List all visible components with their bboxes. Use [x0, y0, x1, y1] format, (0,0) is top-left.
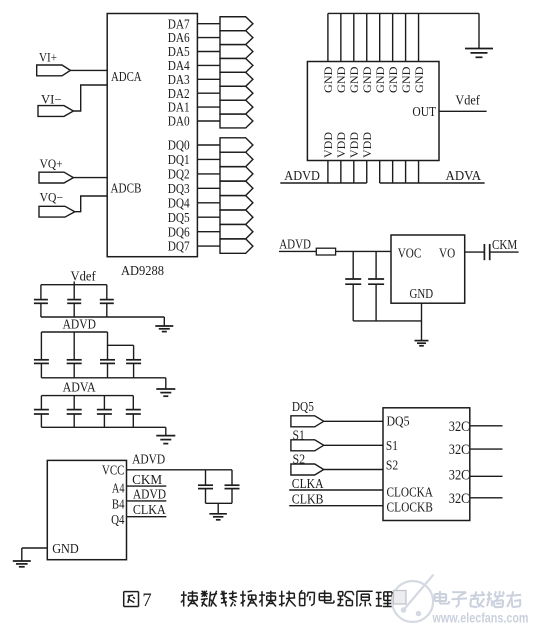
U5 pin label 32C #2 — [449, 442, 470, 458]
capacitor C6 — [100, 345, 115, 378]
svg-text:S2: S2 — [386, 458, 398, 473]
U4 pin label A4 — [112, 482, 125, 497]
svg-text:B4: B4 — [112, 498, 125, 513]
svg-text:DQ3: DQ3 — [168, 182, 190, 197]
net label ADVA — [446, 169, 482, 184]
wire bank2 bottom bus — [41, 377, 165, 379]
svg-text:DQ5: DQ5 — [168, 211, 190, 226]
svg-text:Q4: Q4 — [111, 513, 124, 528]
svg-text:Vdef: Vdef — [455, 92, 480, 107]
U5 pin label 32C #4 — [449, 491, 470, 507]
wire DA4 — [197, 64, 220, 66]
capacitor C9 — [368, 251, 384, 321]
IC U3 body — [391, 235, 465, 303]
wire ADVA bus — [380, 182, 485, 184]
wire S1 — [324, 444, 383, 446]
U1 pin label DQ1 — [168, 153, 190, 168]
svg-text:Vdef: Vdef — [71, 269, 97, 284]
U3 pin label GND — [410, 287, 434, 302]
svg-text:ADVD: ADVD — [284, 169, 320, 184]
watermark char dian — [435, 591, 450, 604]
wire DA7 — [197, 23, 220, 25]
connector DA5 — [220, 45, 253, 59]
U2 GND pin 3 wire — [353, 13, 355, 61]
capacitor C7 — [126, 345, 141, 378]
svg-text:S2: S2 — [293, 452, 306, 467]
svg-text:ADVD: ADVD — [132, 452, 165, 467]
U1 pin label DA3 — [168, 73, 190, 88]
connector VI- — [38, 106, 73, 117]
svg-text:DA1: DA1 — [168, 101, 190, 116]
svg-text:DQ0: DQ0 — [168, 139, 190, 154]
U2 pin 8 wire — [418, 161, 420, 184]
svg-text:GND: GND — [373, 66, 387, 93]
svg-text:ADVA: ADVA — [63, 380, 97, 395]
U2 VDD pin 1 wire — [327, 161, 329, 184]
U2 VDD pin 4 wire — [366, 161, 368, 184]
connector S1 — [291, 440, 324, 451]
svg-text:GND: GND — [52, 542, 79, 557]
wire VCC to ADVD — [127, 469, 233, 471]
U2 pin name VDD 1 — [321, 132, 335, 158]
wire VQ- to ADCB — [75, 196, 107, 212]
watermark logo circle — [392, 581, 433, 622]
U1 pin label DQ7 — [168, 240, 190, 255]
op-amp U1 AD9288 body — [107, 14, 197, 257]
svg-text:DQ2: DQ2 — [168, 168, 190, 183]
wire CLKB — [289, 505, 383, 507]
wire DQ5 — [197, 216, 220, 218]
U2 pin name GND 7 — [399, 66, 413, 93]
net label ADVD — [284, 169, 320, 184]
wire OUT — [439, 110, 487, 112]
connector DA6 — [220, 31, 253, 45]
capacitor C3 — [100, 285, 114, 317]
IC U5 body — [383, 408, 470, 521]
U2 pin name VDD 3 — [347, 132, 361, 158]
svg-text:CLOCKB: CLOCKB — [387, 500, 433, 515]
svg-text:ADVD: ADVD — [133, 486, 166, 501]
U2 pin name VDD 4 — [360, 132, 374, 158]
connector DQ6 — [220, 224, 253, 238]
svg-text:DA7: DA7 — [168, 17, 190, 32]
svg-text:CLKB: CLKB — [292, 491, 324, 506]
connector DA3 — [220, 72, 253, 86]
U2 pin name GND 5 — [373, 66, 387, 93]
svg-text:DA4: DA4 — [168, 59, 190, 74]
wire DQ7 — [197, 245, 220, 247]
U1 pin label DA4 — [168, 59, 190, 74]
wire CLKA — [289, 489, 383, 491]
net label ADVD — [132, 452, 165, 467]
U2 GND pin 1 wire — [327, 13, 329, 61]
svg-text:CKM: CKM — [132, 472, 162, 487]
wire ADVD bus — [280, 182, 366, 184]
U1 part number AD9288 — [121, 264, 164, 279]
wire C10 to CKM — [490, 251, 519, 253]
wire bank2 step — [108, 332, 134, 345]
svg-text:VDD: VDD — [360, 132, 374, 158]
wire bank3 top bus — [41, 395, 133, 397]
input label CLKA — [292, 476, 324, 491]
svg-text:DA5: DA5 — [168, 45, 190, 60]
caption char lu — [338, 592, 354, 606]
wire A4 CKM — [127, 485, 167, 487]
net label CKM — [132, 472, 162, 487]
U2 GND pin 8 wire — [418, 13, 420, 61]
svg-text:GND: GND — [347, 66, 361, 93]
ground G3 — [156, 378, 175, 396]
watermark tofu box — [394, 591, 407, 605]
U5 pin label CLOCKA — [387, 485, 434, 500]
capacitor C10 — [484, 244, 489, 260]
wire U3 GND pin — [421, 303, 423, 340]
svg-text:DA2: DA2 — [168, 87, 190, 102]
wire DA1 — [197, 106, 220, 108]
connector DQ3 — [220, 181, 253, 195]
svg-text:DQ7: DQ7 — [168, 240, 190, 255]
ground G2 — [155, 317, 173, 332]
connector DQ5 — [220, 210, 253, 224]
wire DQ3 — [197, 187, 220, 189]
caption char de — [300, 590, 315, 605]
svg-text:S1: S1 — [293, 429, 305, 444]
net label ADVD — [133, 486, 166, 501]
net label CLKA — [133, 502, 166, 517]
capacitor C16 — [225, 470, 240, 504]
watermark char you — [506, 591, 521, 607]
watermark char fa — [470, 591, 485, 607]
svg-text:A4: A4 — [112, 482, 125, 497]
net label CKM — [492, 237, 517, 252]
input label VQ+ — [40, 157, 63, 171]
capacitor C15 — [198, 470, 213, 504]
svg-text:VDD: VDD — [334, 132, 348, 158]
U2 pin 7 wire — [405, 161, 407, 184]
U5 pin label CLOCKB — [387, 500, 433, 515]
svg-text:DQ5: DQ5 — [292, 400, 314, 415]
capacitor C13 — [97, 396, 112, 428]
ground G6 — [209, 503, 227, 520]
svg-text:DA6: DA6 — [168, 31, 190, 46]
wire DA5 — [197, 51, 220, 53]
svg-text:CLOCKA: CLOCKA — [387, 485, 434, 500]
U2 pin name GND 8 — [412, 66, 426, 93]
caption char huan — [240, 591, 257, 607]
svg-text:32C: 32C — [449, 442, 470, 458]
U1 pin label DA5 — [168, 45, 190, 60]
svg-text:GND: GND — [412, 66, 426, 93]
svg-text:DQ6: DQ6 — [168, 225, 190, 240]
U1 label ADCA — [111, 70, 142, 85]
wire cap bottom bus — [206, 502, 233, 504]
U1 pin label DA2 — [168, 87, 190, 102]
input label VI- — [41, 92, 62, 106]
wire VO out — [465, 251, 484, 253]
wire Q4 CLKA — [127, 516, 167, 518]
svg-text:GND: GND — [321, 66, 335, 93]
input label VI+ — [39, 50, 57, 64]
svg-text:AD9288: AD9288 — [121, 264, 164, 279]
U4 pin label VCC — [102, 463, 125, 478]
U2 pin name GND 3 — [347, 66, 361, 93]
wire VQ+ to ADCB — [73, 177, 107, 179]
U1 label ADCB — [111, 182, 142, 197]
wire GND pin — [22, 547, 48, 549]
U5 pin label DQ5 — [387, 414, 410, 429]
svg-text:GND: GND — [334, 66, 348, 93]
U5 pin label S2 — [386, 458, 398, 473]
wire DQ4 — [197, 202, 220, 204]
svg-text:7: 7 — [142, 591, 151, 611]
connector DA7 — [220, 17, 253, 31]
U2 GND pin 7 wire — [405, 13, 407, 61]
U5 pin label 32C #3 — [449, 468, 470, 484]
U1 pin label DA0 — [168, 115, 190, 130]
U1 pin label DQ5 — [168, 211, 190, 226]
wire DQ1 — [197, 158, 220, 160]
svg-text:GND: GND — [360, 66, 374, 93]
U2 VDD pin 3 wire — [353, 161, 355, 184]
ground G7 — [13, 548, 31, 567]
U2 pin label OUT — [412, 105, 436, 120]
U2 pin name GND 6 — [386, 66, 400, 93]
svg-text:GND: GND — [399, 66, 413, 93]
connector DA2 — [220, 86, 253, 100]
wire to ground G1 — [478, 13, 480, 48]
svg-text:www.elecfans.com: www.elecfans.com — [432, 611, 529, 626]
caption char kuai — [279, 591, 296, 607]
wire DA6 — [197, 37, 220, 39]
U2 GND pin 5 wire — [379, 13, 381, 61]
svg-text:VI−: VI− — [41, 92, 62, 106]
wire 32C #3 — [470, 475, 503, 477]
IC U2 body — [307, 62, 439, 161]
wire bank1 bottom bus — [41, 316, 164, 318]
svg-text:VQ−: VQ− — [40, 191, 63, 205]
connector VI+ — [37, 65, 71, 76]
svg-text:CLKA: CLKA — [133, 502, 166, 517]
input label S2 — [293, 452, 306, 467]
capacitor C1 — [34, 285, 48, 317]
svg-text:S1: S1 — [386, 439, 398, 454]
capacitor C8 — [345, 251, 361, 321]
svg-text:DA0: DA0 — [168, 115, 190, 130]
svg-text:GND: GND — [386, 66, 400, 93]
svg-text:OUT: OUT — [412, 105, 436, 120]
capacitor C5 — [67, 332, 82, 378]
connector VQ+ — [39, 172, 73, 183]
U1 pin label DQ3 — [168, 182, 190, 197]
svg-text:CKM: CKM — [492, 237, 517, 252]
input label VQ- — [40, 191, 63, 205]
input label S1 — [293, 429, 305, 444]
wire VI+ to ADCA — [70, 69, 107, 71]
svg-text:ADVA: ADVA — [446, 169, 482, 184]
svg-text:DQ1: DQ1 — [168, 153, 190, 168]
svg-text:GND: GND — [410, 287, 434, 302]
wire VI- to ADCA — [73, 85, 107, 111]
capacitor C4 — [34, 332, 49, 378]
wire 32C #4 — [470, 497, 503, 499]
watermark char zi — [451, 592, 467, 607]
connector DQ7 — [220, 239, 253, 253]
wire 32C #1 — [470, 425, 503, 427]
net label Vdef — [71, 269, 97, 284]
svg-text:ADVD: ADVD — [279, 236, 311, 251]
U1 pin label DQ2 — [168, 168, 190, 183]
caption char zhuan — [220, 591, 237, 607]
svg-text:VQ+: VQ+ — [40, 157, 63, 171]
svg-text:ADCB: ADCB — [111, 182, 142, 197]
ground G1 — [465, 48, 493, 57]
svg-text:CLKA: CLKA — [292, 476, 324, 491]
svg-text:VI+: VI+ — [39, 50, 57, 64]
caption char yuan — [357, 591, 373, 606]
connector DA4 — [220, 58, 253, 72]
IC U4 body — [47, 460, 126, 559]
wire bank3 bottom bus — [41, 426, 165, 428]
net label ADVD — [279, 236, 311, 251]
net label ADVA — [63, 380, 97, 395]
capacitor C11 — [34, 396, 49, 428]
U4 pin label Q4 — [111, 513, 124, 528]
U2 VDD pin 2 wire — [340, 161, 342, 184]
svg-text:VOC: VOC — [398, 247, 422, 262]
wire bank1 top bus — [41, 284, 107, 286]
input label CLKB — [292, 491, 324, 506]
connector DQ0 — [220, 138, 253, 152]
wire cap bottoms — [353, 320, 421, 322]
input label DQ5 — [292, 400, 314, 415]
U2 pin name GND 4 — [360, 66, 374, 93]
U2 pin name VDD 2 — [334, 132, 348, 158]
net label Vdef — [455, 92, 480, 107]
svg-text:32C: 32C — [449, 491, 470, 507]
U3 pin label VOC — [398, 247, 422, 262]
connector VQ- — [39, 206, 75, 217]
wire Vdef stub — [73, 282, 75, 285]
caption char 7 — [142, 591, 151, 611]
wire B4 ADVD — [127, 500, 167, 502]
U2 GND pin 2 wire — [340, 13, 342, 61]
U4 pin label GND — [52, 542, 79, 557]
svg-text:DQ4: DQ4 — [168, 196, 190, 211]
svg-text:VDD: VDD — [347, 132, 361, 158]
U5 pin label 32C #1 — [449, 419, 470, 435]
watermark logo needle — [401, 575, 434, 617]
net label ADVD — [63, 317, 96, 332]
U1 pin label DA6 — [168, 31, 190, 46]
caption char li — [376, 592, 393, 607]
ground G4 — [156, 427, 175, 443]
wire DQ5 — [324, 420, 383, 422]
wire DQ0 — [197, 144, 220, 146]
connector DQ5 — [291, 416, 324, 427]
connector DQ1 — [220, 152, 253, 166]
U2 pin 5 wire — [379, 161, 381, 184]
connector S2 — [291, 464, 324, 475]
U3 pin label VO — [439, 247, 455, 262]
svg-text:32C: 32C — [449, 419, 470, 435]
capacitor C12 — [67, 396, 82, 428]
watermark url — [432, 611, 529, 626]
caption char tu(figure) — [124, 592, 139, 607]
svg-text:VCC: VCC — [102, 463, 125, 478]
U1 pin label DQ4 — [168, 196, 190, 211]
svg-text:DA3: DA3 — [168, 73, 190, 88]
U1 pin label DA1 — [168, 101, 190, 116]
wire ADVD to R1 — [279, 250, 316, 252]
U2 pin name GND 2 — [334, 66, 348, 93]
wire DA0 — [197, 120, 220, 122]
watermark char shao — [487, 591, 504, 607]
capacitor C2 — [67, 285, 81, 317]
connector DA1 — [220, 100, 253, 114]
wire DQ6 — [197, 231, 220, 233]
connector DQ2 — [220, 167, 253, 181]
svg-text:VO: VO — [439, 247, 455, 262]
U1 pin label DQ0 — [168, 139, 190, 154]
connector DQ4 — [220, 196, 253, 210]
U1 pin label DQ6 — [168, 225, 190, 240]
caption char mo — [181, 591, 198, 607]
U2 GND pin 6 wire — [392, 13, 394, 61]
svg-text:DQ5: DQ5 — [387, 414, 410, 429]
caption char mo — [259, 591, 276, 607]
capacitor C14 — [126, 396, 141, 428]
wire R1 to U3 — [336, 250, 391, 252]
wire bank2 top bus — [41, 331, 107, 333]
connector DA0 — [220, 114, 253, 128]
U4 pin label B4 — [112, 498, 125, 513]
resistor R1 — [316, 248, 335, 255]
wire DQ2 — [197, 173, 220, 175]
U2 pin 6 wire — [392, 161, 394, 184]
wire DA2 — [197, 92, 220, 94]
ground G5 — [415, 340, 429, 346]
U5 pin label S1 — [386, 439, 398, 454]
U2 pin name GND 1 — [321, 66, 335, 93]
svg-text:32C: 32C — [449, 468, 470, 484]
caption char shu — [201, 591, 217, 607]
svg-text:VDD: VDD — [321, 132, 335, 158]
svg-text:ADCA: ADCA — [111, 70, 142, 85]
caption char dian — [319, 590, 334, 603]
svg-text:ADVD: ADVD — [63, 317, 96, 332]
wire S2 — [324, 469, 383, 471]
U1 pin label DA7 — [168, 17, 190, 32]
wire DA3 — [197, 78, 220, 80]
U2 GND pin 4 wire — [366, 13, 368, 61]
wire GND bus top — [328, 12, 479, 14]
wire 32C #2 — [470, 448, 503, 450]
